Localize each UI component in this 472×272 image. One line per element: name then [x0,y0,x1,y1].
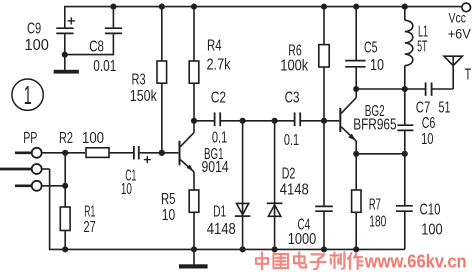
svg-text:D1: D1 [213,204,226,221]
resistor R3 [157,7,167,153]
svg-text:4148: 4148 [280,181,309,198]
svg-text:C6: C6 [422,115,436,132]
junction dot R1 bottom rail [62,246,68,252]
junction dot C5 top rail [353,4,359,10]
junction dot R3 bottom at BG1 base wire [159,150,165,156]
capacitor C10 [396,154,413,250]
junction dot R4 top rail [191,4,197,10]
svg-text:www.66kv.cn: www.66kv.cn [364,250,467,271]
svg-text:R2: R2 [59,130,73,147]
resistor R7 [352,154,361,250]
junction dot L1 top rail [402,4,408,10]
svg-text:2.7k: 2.7k [207,56,231,73]
junction dot input row3 [62,183,68,189]
node label circled 1 [12,79,43,110]
svg-text:R4: R4 [207,38,222,55]
svg-text:10: 10 [370,57,384,74]
bottom rail ground bus wire [50,169,405,249]
junction dot R5 bottom rail [191,246,197,252]
svg-text:C10: C10 [420,202,441,219]
junction dot BG2 emitter node [353,151,359,157]
junction dot R7 bottom rail [353,246,359,252]
svg-text:C8: C8 [89,38,104,55]
wire BG2 emitter to C10 [356,153,405,155]
svg-text:C5: C5 [364,39,378,56]
capacitor C2 [215,112,243,126]
junction dot BG1 collector / R4 [191,118,197,124]
svg-text:R7: R7 [369,196,381,213]
resistor R1 [60,207,70,249]
svg-text:0.01: 0.01 [93,58,116,75]
junction dot C4 bottom rail [321,246,327,252]
svg-text:R3: R3 [132,71,146,88]
svg-text:1000: 1000 [288,231,317,248]
junction dot C1/R3 node [159,150,165,156]
junction dot BG2 collector node [353,86,359,92]
input terminal PP row3 [15,181,65,191]
junction dot input row1 [62,150,68,156]
resistor R2 [65,148,134,158]
svg-text:+6V: +6V [448,26,471,41]
transistor BG2 [339,89,356,154]
capacitor C6 [397,89,413,154]
capacitor C4 [315,121,333,250]
capacitor C7 [405,82,453,95]
svg-text:9014: 9014 [202,159,230,176]
svg-text:51: 51 [439,100,451,117]
resistor R5 [189,190,199,249]
svg-text:150k: 150k [130,88,157,105]
svg-text:D2: D2 [282,166,296,183]
capacitor C8 [65,7,122,55]
svg-text:Vcc: Vcc [449,11,467,26]
diode D2 [267,121,283,250]
top rail Vcc bus wire [65,7,462,29]
junction dot D1 bottom rail [240,246,246,252]
wire collector node to L1/C7 [356,88,405,90]
svg-text:27: 27 [84,219,96,236]
junction dot R6 top rail [321,4,327,10]
diode D1 [235,121,251,250]
wire C2 to C3 [243,120,295,122]
svg-text:C9: C9 [27,20,41,37]
wire BG1 collector to BG2 base (signal line) [194,120,214,122]
junction dot D2 top [272,118,278,124]
svg-text:C2: C2 [211,90,226,107]
svg-text:10: 10 [162,207,176,224]
ground symbol top-left [54,55,79,74]
capacitor C1 [134,146,178,163]
resistor R6 [319,7,329,121]
svg-text:C3: C3 [285,90,300,107]
svg-text:100: 100 [82,130,104,147]
capacitor C3 [295,112,340,126]
svg-text:BFR965: BFR965 [353,117,396,134]
svg-text:1: 1 [24,80,32,110]
capacitor C5 [345,7,365,89]
inductor L1 [405,7,413,89]
antenna T [444,56,462,89]
junction dot D1 top [240,118,246,124]
svg-text:100: 100 [421,222,442,239]
watermark chinese characters 中国电子制作 [256,252,362,269]
svg-text:180: 180 [369,213,386,230]
ground symbol bottom [179,249,208,268]
input terminal PP row1 [15,148,65,158]
wire input node to R1 [64,153,66,207]
svg-text:100k: 100k [280,58,308,75]
junction dot C9/C8 ground node [62,52,68,58]
svg-text:10: 10 [121,181,132,198]
resistor R4 [189,7,199,121]
svg-text:T: T [465,67,472,84]
svg-text:R5: R5 [161,191,176,208]
svg-text:0.1: 0.1 [284,132,299,149]
junction dot C8 top rail [110,4,116,10]
junction dot D2 bottom rail [272,246,278,252]
junction dot R3 top rail [159,4,165,10]
junction dot R6/C4/BG2 base node [321,118,327,124]
input terminal PP row2 [0,164,50,174]
capacitor C9 [56,17,75,54]
svg-text:10: 10 [421,131,433,148]
junction dot L1/C6/C7 node [402,86,408,92]
transistor BG1 [179,121,195,190]
Vcc terminal [462,3,471,12]
junction dot C6/C10 node [402,151,408,157]
svg-text:4148: 4148 [207,221,236,238]
svg-text:PP: PP [23,130,37,147]
svg-text:5T: 5T [417,39,428,56]
svg-text:0.1: 0.1 [212,130,227,147]
svg-text:100: 100 [25,37,49,54]
